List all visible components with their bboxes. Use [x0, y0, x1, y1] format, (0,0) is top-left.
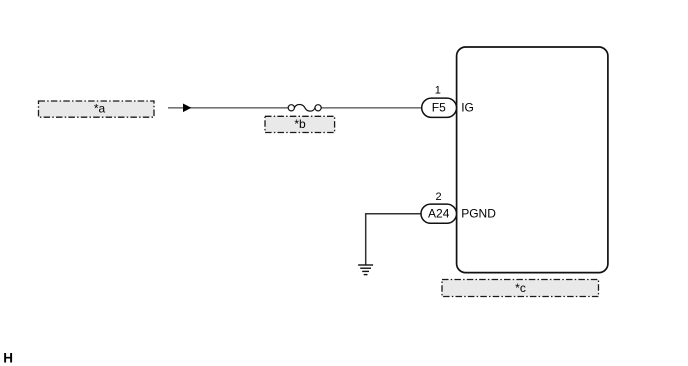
ground wire from pin A24 [366, 214, 421, 265]
ground symbol [358, 265, 373, 275]
fuse element [288, 105, 321, 112]
ECU box [457, 47, 608, 273]
svg-text:A24: A24 [428, 206, 450, 220]
svg-text:F5: F5 [432, 101, 446, 115]
svg-text:*b: *b [294, 117, 306, 131]
wire from fuse to pin F5 [321, 107, 422, 109]
svg-text:*c: *c [515, 281, 526, 295]
label box *a [39, 101, 155, 117]
label box *c [442, 280, 599, 297]
svg-text:2: 2 [435, 191, 441, 203]
svg-text:IG: IG [461, 100, 474, 114]
wire from *a to fuse [168, 107, 289, 109]
pin A24 oval [421, 204, 457, 223]
arrow on wire [183, 104, 191, 113]
label box *b [265, 116, 335, 132]
pin F5 oval [422, 98, 457, 117]
svg-text:PGND: PGND [461, 207, 496, 221]
svg-text:H: H [3, 351, 13, 366]
svg-text:1: 1 [435, 85, 441, 97]
svg-text:*a: *a [94, 102, 106, 116]
